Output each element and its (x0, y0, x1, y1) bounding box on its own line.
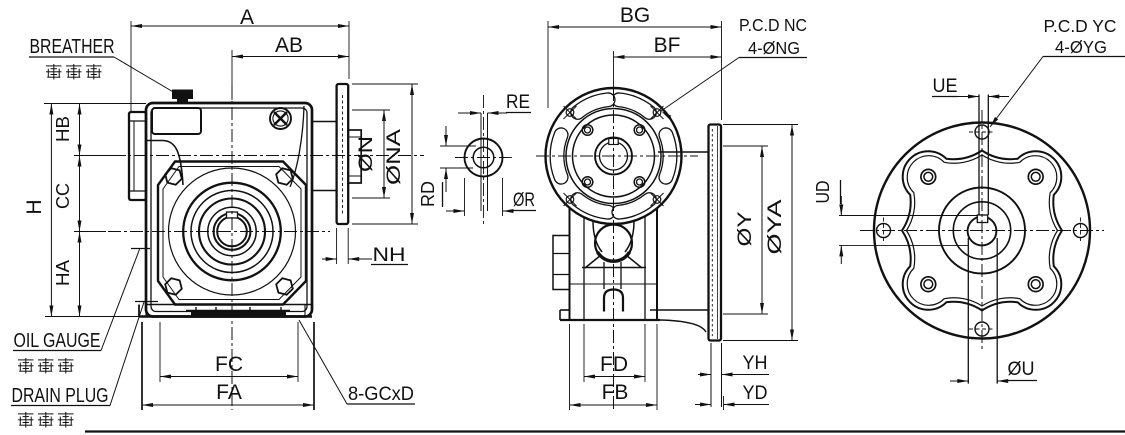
left view: output bore keyway (227, 212, 238, 218)
middle view: drain boss arch (604, 290, 623, 312)
right view: cloverleaf casting outline (902, 151, 1062, 311)
dimension YH (698, 374, 711, 376)
svg-text:DRAIN PLUG: DRAIN PLUG (12, 385, 109, 407)
dimension diameter R (464, 178, 466, 216)
middle view: input flange outer circle (546, 88, 682, 224)
svg-text:AB: AB (275, 34, 303, 57)
small circle input shaft section (465, 139, 503, 177)
svg-text:BG: BG (620, 4, 650, 27)
svg-text:ØU: ØU (1008, 359, 1035, 380)
middle view: 4 socket screws on flange (582, 125, 593, 136)
leader oil gauge (101, 248, 140, 351)
svg-text:OIL GAUGE: OIL GAUGE (14, 330, 101, 352)
left view: gearbox body outline (146, 103, 312, 317)
right view: cloverleaf inner contour (907, 155, 1058, 306)
left view: motor spigot hub (348, 130, 361, 183)
left view: oil filler boss rectangle (152, 108, 201, 134)
middle view: input shaft bore (595, 138, 632, 175)
dimension diameter YA (723, 124, 798, 126)
dimension diameter N (352, 109, 390, 111)
table rule bottom (85, 430, 1125, 432)
middle view: body left wall (569, 208, 571, 320)
left view: output vertical centerline (231, 85, 233, 410)
svg-text:H: H (23, 199, 46, 214)
left view: output boss inner plate line (163, 167, 301, 300)
label oil gauge chinese (18, 359, 34, 361)
dimension FC (159, 322, 161, 382)
svg-text:YH: YH (743, 353, 768, 374)
leader 4-YG (990, 57, 1043, 128)
svg-text:HA: HA (53, 260, 73, 286)
dimension H (44, 103, 146, 105)
middle view: worm shaft end boss (595, 225, 632, 262)
svg-text:BREATHER: BREATHER (30, 36, 115, 58)
svg-text:RD: RD (418, 181, 438, 207)
svg-text:ØNA: ØNA (384, 129, 405, 185)
left view: hex bolt top-left (165, 168, 182, 185)
svg-text:4-ØNG: 4-ØNG (748, 38, 800, 58)
left view: output boss square plate (octagon) (158, 162, 306, 305)
middle view: plate extension lines below (710, 343, 712, 407)
middle view: oil gauge bosses left (553, 236, 570, 290)
svg-text:UD: UD (813, 181, 833, 204)
svg-text:8-GCxD: 8-GCxD (348, 384, 414, 405)
right view: bore band lines down (967, 238, 969, 384)
left view: output horizontal centerline (108, 231, 330, 233)
svg-text:P.C.D NC: P.C.D NC (739, 15, 807, 35)
middle view: bearing housing lower edge (582, 267, 646, 269)
dimension HB (74, 155, 126, 157)
left view: hex bolt bottom-left (165, 278, 182, 295)
dimension diameter Y (723, 145, 768, 147)
middle view: body parting line (570, 283, 657, 285)
right view: outer flange circle (874, 123, 1090, 339)
dimension HA (79, 232, 81, 317)
right view: 4-YG holes on PCD YC (975, 125, 989, 139)
left view: motor flange plate (337, 84, 349, 224)
middle view: left foot flare (559, 310, 561, 320)
svg-text:YD: YD (743, 383, 768, 404)
leader breather (114, 57, 175, 93)
svg-text:ØN: ØN (356, 136, 377, 172)
svg-text:FD: FD (600, 353, 628, 376)
middle view: flange face circles (566, 109, 661, 204)
dimension CC (74, 231, 106, 233)
svg-text:P.C.D YC: P.C.D YC (1044, 16, 1117, 36)
dimension FB (569, 324, 571, 410)
leader 4-NG (661, 58, 739, 112)
svg-text:FC: FC (215, 353, 243, 376)
left view: bottom cover dark band (191, 311, 286, 317)
left view: input axis centerline (112, 155, 424, 157)
right view: output bore (968, 217, 997, 246)
svg-text:FA: FA (216, 381, 242, 404)
label drain plug chinese (18, 413, 34, 415)
dimension diameter NA (352, 83, 418, 85)
dimension FA (141, 322, 143, 410)
dimension BG (547, 21, 549, 108)
middle view: bearing bell housing curves (593, 221, 602, 252)
middle view: vertical centerline (613, 51, 615, 88)
svg-text:BF: BF (654, 34, 681, 57)
dimension diameter U (950, 380, 968, 382)
middle view: body inner wall lines (583, 217, 585, 320)
svg-text:RE: RE (506, 92, 530, 113)
svg-text:CC: CC (53, 183, 73, 209)
right view: 4 lobe socket screws (921, 169, 936, 184)
small circle keyway lines (480, 113, 482, 211)
svg-text:UE: UE (933, 76, 958, 97)
dimension BF (614, 56, 722, 58)
left view: input-side rear cover bracket (129, 112, 146, 200)
right view: keyway band lines up (978, 95, 980, 216)
dimension RE (458, 112, 481, 114)
left view: housing circle behind plate (169, 168, 296, 295)
svg-text:A: A (240, 6, 254, 29)
middle view: boss-to-arch verticals (603, 262, 605, 289)
left view: flange-body connecting cylinder lines (312, 121, 337, 123)
svg-text:4-ØYG: 4-ØYG (1055, 37, 1107, 57)
middle view: input bore keyway (609, 139, 618, 145)
dimension RD (440, 145, 476, 147)
svg-text:HB: HB (53, 116, 73, 142)
middle view: 4-NG holes with cross marks (566, 109, 574, 117)
label breather chinese (46, 65, 62, 67)
dimension FD (583, 324, 585, 382)
middle view: bearing housing webs (585, 255, 601, 268)
small circle centerlines (455, 157, 513, 159)
svg-text:NH: NH (373, 245, 406, 266)
left view: inner body contour (151, 108, 307, 312)
middle view: flange hub bridge line (658, 151, 709, 153)
svg-text:ØYA: ØYA (765, 199, 786, 254)
left view: hex bolt top-right (276, 168, 293, 185)
left view: breather fitting (black) (172, 90, 193, 100)
left view: phillips screw top-right (270, 108, 291, 129)
leader drain plug (110, 302, 144, 406)
middle view: flange slots (666, 135, 670, 177)
leader 8-GCxD (299, 320, 347, 404)
svg-text:ØR: ØR (513, 190, 535, 211)
middle view: body bottom (560, 319, 660, 321)
left view: motor flange hidden bolt line (342, 95, 344, 215)
svg-text:ØY: ØY (735, 211, 756, 246)
dimension A (130, 21, 132, 111)
left view: casting web curves (146, 141, 183, 186)
middle view: horizontal centerline (536, 155, 698, 157)
right view: vertical centerline (981, 110, 983, 352)
dimension UD (839, 215, 977, 217)
left view: bottom cover bolts (195, 307, 197, 317)
left view: output boss circles (183, 183, 281, 281)
left view: hex bolt bottom-right (276, 278, 293, 295)
middle view: body right wall (656, 208, 658, 320)
dimension YD (723, 396, 725, 410)
dimension NH (336, 228, 338, 264)
right view: output bore keyway (977, 215, 987, 223)
middle view: foot bridge to flange (650, 309, 709, 311)
svg-text:FB: FB (602, 381, 629, 404)
middle view: output flange plate edge view (709, 125, 722, 341)
right view: pilot boss circle (939, 188, 1025, 274)
dimension AB (231, 50, 233, 100)
left view: base plate and feet (139, 315, 312, 318)
right view: horizontal centerline (860, 230, 1104, 232)
right view: hub circle (953, 202, 1010, 259)
